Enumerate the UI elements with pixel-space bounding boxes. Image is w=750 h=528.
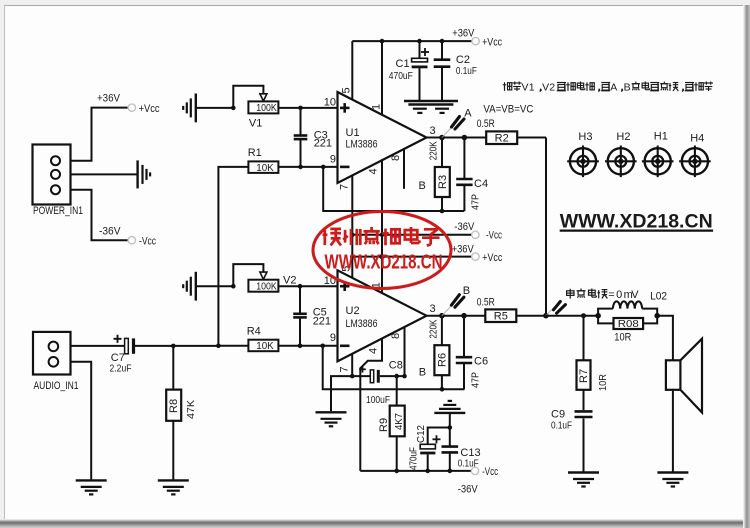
ground [158,480,189,494]
svg-text:R5: R5 [494,311,508,323]
svg-text:LM3886: LM3886 [346,139,378,151]
svg-text:V: V [542,82,549,94]
resistor R08 [598,316,657,344]
wire U1 pin8 [404,148,426,192]
resistor R4 [247,325,279,352]
svg-text:A: A [610,82,617,94]
capacitor C7 [110,335,174,375]
svg-text:220K: 220K [428,320,440,339]
node A [439,108,472,141]
svg-text:8: 8 [390,155,402,161]
node [654,313,660,319]
wire [657,316,673,361]
node [394,469,452,474]
svg-text:-36V: -36V [454,221,475,233]
svg-text:-36V: -36V [99,226,121,238]
capacitor C1 [389,41,429,100]
svg-text:R9: R9 [378,418,390,432]
svg-text:10R: 10R [597,374,609,391]
svg-text:+36V: +36V [97,93,121,105]
capacitor C13 [442,428,481,471]
wire V2 wiper [233,264,267,286]
label [477,297,495,309]
terminal +Vcc mid [452,244,503,264]
svg-text:B: B [419,180,426,192]
svg-text:47P: 47P [470,372,482,388]
wire [427,315,546,317]
ground [657,473,688,487]
label [483,103,533,115]
ground [183,272,196,301]
resistor R1 [248,147,279,174]
svg-text:R2: R2 [495,133,509,145]
pad H1 [642,131,674,178]
svg-text:R08: R08 [618,318,639,330]
svg-text:5: 5 [341,87,353,93]
watermark [313,212,451,289]
svg-text:470uF: 470uF [389,70,413,82]
svg-text:H3: H3 [578,131,592,143]
wire +Vcc rail top [352,40,472,42]
svg-text:10R: 10R [614,332,631,344]
wire [196,285,234,287]
svg-text:WWW.XD218.CN: WWW.XD218.CN [560,211,713,233]
node [380,39,445,44]
svg-text:AUDIO_IN1: AUDIO_IN1 [34,380,79,392]
svg-text:8: 8 [390,333,402,339]
svg-text:10K: 10K [256,162,274,174]
svg-text:R3: R3 [437,175,449,189]
wire -Vcc rail mid [352,234,472,236]
wire -Vcc rail bottom [360,470,471,472]
svg-text:R1: R1 [248,147,262,159]
capacitor C8 [352,360,404,407]
wire U1 pin5 [351,41,353,100]
svg-text:C12: C12 [415,425,427,443]
potentiometer V1 [248,101,278,129]
resistor R5 [485,309,516,322]
wire [71,108,129,161]
svg-text:0.5R: 0.5R [477,297,495,309]
capacitor C12 [408,425,450,471]
wire U1 feedback [323,167,464,211]
node [350,374,355,379]
resistor R7 [577,316,610,410]
svg-text:H2: H2 [616,131,630,143]
node [171,344,176,349]
svg-text:R7: R7 [578,369,590,383]
wire [71,190,129,241]
svg-text:+Vcc: +Vcc [482,36,502,48]
terminal +Vcc [452,28,502,49]
capacitor C6 [456,316,488,390]
svg-text:B: B [463,285,470,297]
capacitor C4 [456,138,488,212]
svg-text:R8: R8 [168,399,180,413]
svg-text:-Vcc: -Vcc [486,230,502,242]
wire [173,345,218,347]
svg-text:0: 0 [616,289,622,301]
ground [76,480,107,494]
svg-text:V2: V2 [283,275,296,287]
svg-text:C4: C4 [474,178,488,190]
node [440,387,445,392]
terminal -Vcc mid [454,221,502,242]
wire [546,315,598,317]
wire [672,390,674,472]
node [461,313,467,319]
label note [503,82,713,94]
svg-text:V: V [631,289,639,301]
svg-text:221: 221 [313,316,331,328]
wire [545,138,547,316]
svg-text:4: 4 [368,168,380,174]
node [394,374,406,379]
node [448,425,453,430]
svg-text:47K: 47K [185,400,197,419]
svg-text:U1: U1 [346,127,360,139]
svg-text:C6: C6 [474,356,488,368]
label WWW.XD218.CN [560,211,713,233]
svg-text:H4: H4 [690,133,704,145]
svg-text:+36V: +36V [452,28,475,40]
wire U1 pin4 / U2 pin1 [381,159,383,293]
svg-text:9: 9 [330,154,336,166]
svg-text:1: 1 [529,82,535,94]
svg-text:7: 7 [339,366,351,372]
op-amp U1 [324,87,436,190]
node [350,233,384,238]
wire [71,173,138,175]
wire U2 pin8 [404,327,406,376]
node [581,313,586,318]
wire U2 pin4 [360,339,382,471]
ground [183,94,196,123]
connector AUDIO_IN1 [33,332,79,392]
svg-text:B: B [419,366,426,378]
pad H3 [567,131,599,177]
node [321,165,326,170]
wire [196,107,234,109]
svg-text:2.2uF: 2.2uF [110,362,132,374]
label [477,118,495,130]
resistor R3 [428,138,450,212]
svg-text:-Vcc: -Vcc [482,466,498,478]
svg-text:A: A [464,108,472,120]
svg-text:2: 2 [549,82,555,94]
svg-text:10: 10 [324,97,336,109]
node [298,284,303,289]
speaker [666,339,702,413]
capacitor C2 [434,41,477,100]
svg-text:221: 221 [314,138,332,150]
wire [278,107,337,109]
wire [71,345,125,347]
svg-text:0.1uF: 0.1uF [456,65,477,77]
svg-text:C8: C8 [389,360,403,372]
node [350,254,385,259]
ground [568,473,599,487]
node [298,106,303,111]
svg-text:L02: L02 [650,290,667,302]
wire U1 pin7 / U2 pin5 [351,175,353,278]
svg-text:0.1uF: 0.1uF [551,420,572,432]
svg-text:U2: U2 [346,305,360,317]
potentiometer V2 [248,275,296,293]
capacitor C5 [293,286,331,346]
node midpoint [543,302,565,319]
svg-text:H1: H1 [654,131,668,143]
pad H4 [679,133,711,178]
svg-text:470uF: 470uF [408,447,420,470]
svg-text:B: B [624,82,631,94]
node [462,135,468,141]
svg-text:POWER_IN1: POWER_IN1 [33,205,83,217]
resistor R9 [378,376,405,471]
terminal -Vcc bottom [458,466,499,495]
wire V1 wiper [233,86,267,108]
wire U2 pin7 [351,354,353,376]
resistor R2 [486,131,517,144]
svg-text:V: V [522,82,529,94]
svg-text:R4: R4 [247,325,261,337]
resistor R8 [166,346,197,480]
wire [449,413,451,427]
terminal -Vcc left [99,226,156,248]
svg-text:WWW.XD218.CN: WWW.XD218.CN [325,251,443,274]
label midpoint [567,289,640,302]
svg-text:7: 7 [339,184,351,190]
ground [138,160,151,188]
svg-text:+Vcc: +Vcc [139,103,160,115]
wire +Vcc rail mid [352,256,472,258]
svg-text:V1: V1 [249,117,262,129]
svg-text:3: 3 [430,303,436,315]
inductor L02 [598,290,667,315]
svg-text:-36V: -36V [458,484,479,496]
node [298,344,303,349]
capacitor C3 [294,108,332,167]
svg-text:VA=VB=VC: VA=VB=VC [483,103,533,115]
connector POWER_IN1 [33,145,84,218]
svg-text:3: 3 [430,125,436,137]
op-amp U2 [324,266,436,373]
svg-text:10K: 10K [256,340,274,352]
svg-text:C1: C1 [396,58,410,70]
wire [216,344,248,349]
svg-text:100K: 100K [256,281,277,293]
svg-text:=: = [608,289,614,301]
svg-text:4K7: 4K7 [393,413,405,430]
svg-text:R6: R6 [436,353,448,367]
ground [404,101,458,113]
svg-text:100K: 100K [256,102,277,114]
svg-text:+36V: +36V [452,244,475,256]
ground [316,412,347,426]
svg-text:1: 1 [371,104,383,110]
wire [278,166,337,168]
wire [278,285,337,287]
svg-text:47P: 47P [470,194,482,210]
node [440,209,445,214]
node [231,284,236,289]
wire [427,137,547,139]
wire [331,376,352,411]
svg-text:+Vcc: +Vcc [482,252,502,264]
wire [218,167,248,346]
svg-text:0.5R: 0.5R [477,118,495,130]
node B [439,285,470,319]
node [231,106,236,111]
label [419,366,426,378]
node [298,165,303,170]
svg-text:LM3886: LM3886 [346,318,378,330]
resistor R6 [428,316,450,390]
capacitor C9 [551,409,593,472]
wire [278,345,337,347]
wire U2 feedback [323,346,465,390]
svg-text:-Vcc: -Vcc [139,236,156,248]
svg-text:9: 9 [330,332,336,344]
svg-text:4: 4 [368,348,380,354]
svg-text:100uF: 100uF [366,394,390,406]
wire [71,362,92,480]
svg-text:220K: 220K [428,141,440,160]
terminal +Vcc top-left [97,93,160,116]
node [595,313,601,319]
ground [434,401,465,413]
svg-text:0.1uF: 0.1uF [458,458,479,470]
node [320,344,325,349]
pad H2 [605,131,637,177]
wire U1 pin1 [381,41,383,115]
